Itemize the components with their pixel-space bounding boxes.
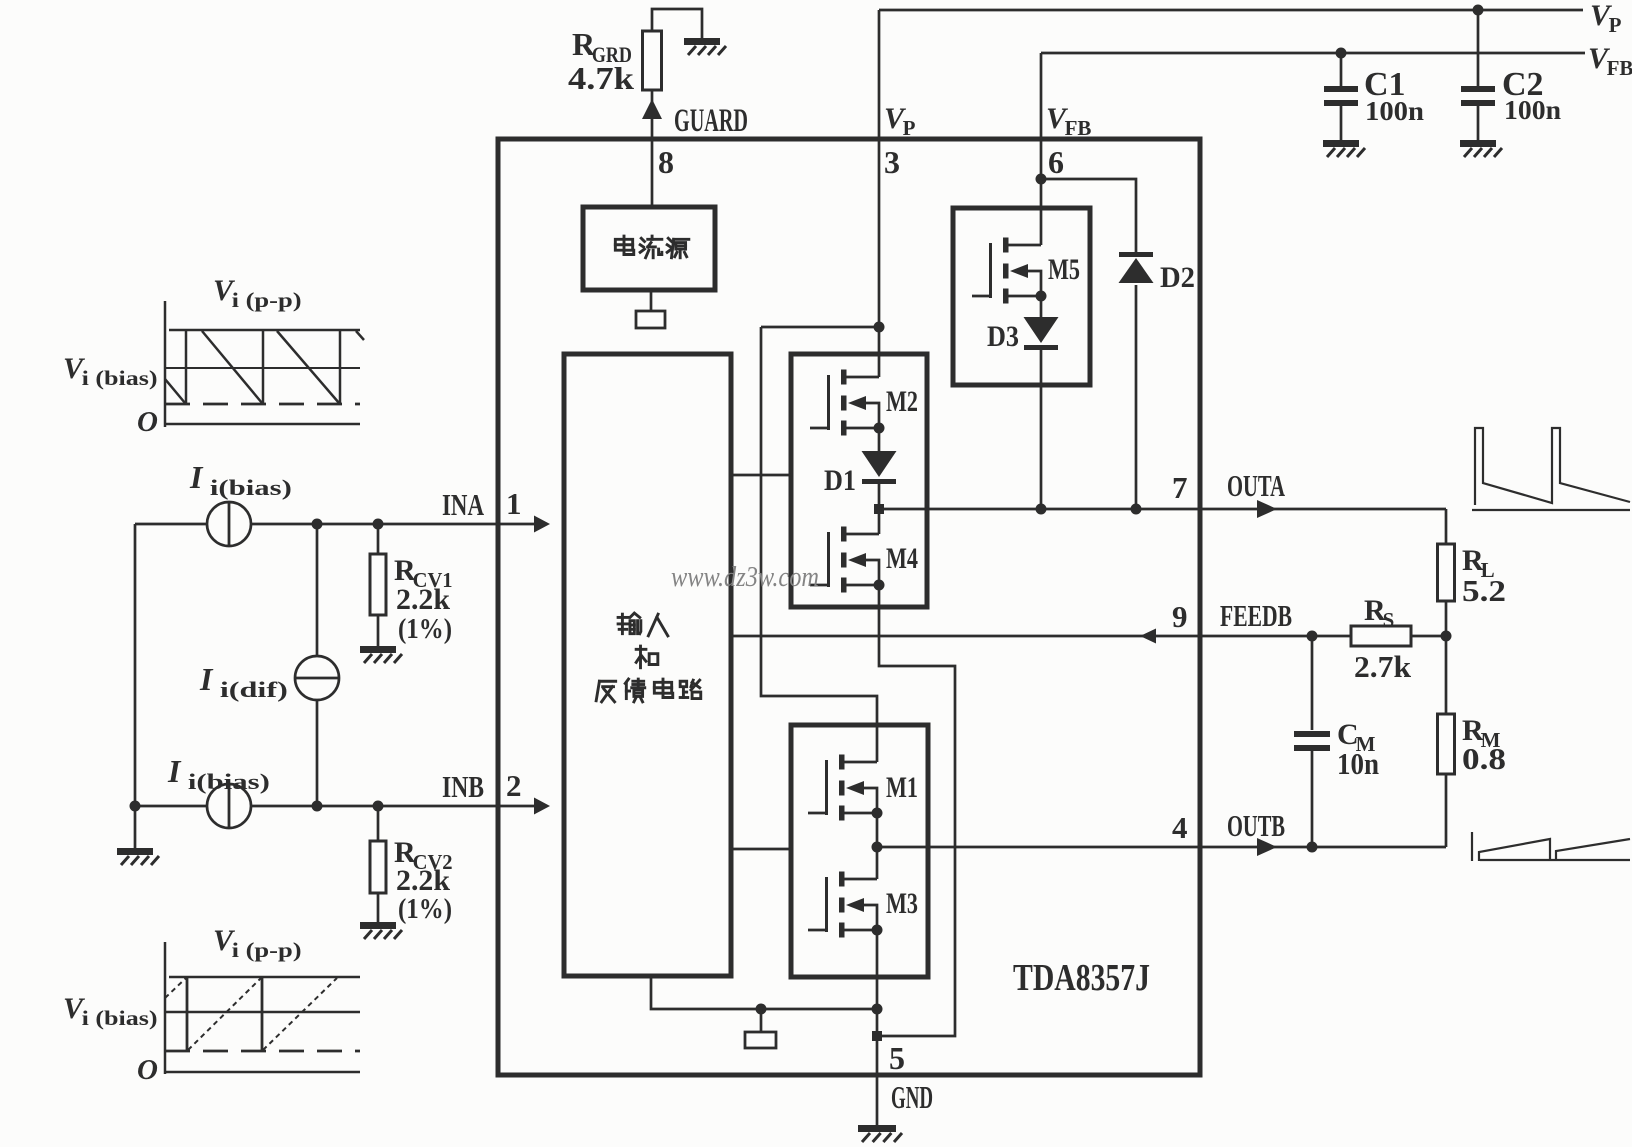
wire substrate stub — [760, 1009, 763, 1032]
wire pin 3 VP vertical to M2 drain — [878, 139, 881, 377]
svg-text:D1: D1 — [824, 464, 856, 497]
wire pin6 to VFB rail — [1040, 53, 1043, 139]
svg-text:(1%): (1%) — [398, 893, 452, 925]
waveform OUTB sawtooth — [1472, 832, 1630, 861]
wire OUTA to R_L — [1445, 509, 1448, 544]
node VFB/C1 junction — [1336, 48, 1347, 59]
ground C1 — [1323, 140, 1365, 157]
wire input block to lower MOS box — [731, 848, 791, 851]
wire INB line — [135, 805, 545, 808]
block: M5/D3 box — [953, 208, 1090, 385]
wire left vertical — [134, 524, 137, 848]
resistor R_M 0.8 — [1438, 714, 1455, 774]
wire branch to D2 — [1041, 179, 1136, 252]
wire M5 source to D3 — [1040, 296, 1043, 317]
current source I_i(dif) — [295, 656, 339, 700]
svg-text:INB: INB — [442, 769, 484, 804]
svg-text:9: 9 — [1172, 599, 1188, 634]
svg-text:OUTA: OUTA — [1227, 468, 1285, 503]
wire VFB rail — [1041, 52, 1585, 55]
resistor R_S 2.7k — [1351, 626, 1411, 646]
node M2 source — [874, 423, 885, 434]
node FEEDB/C_M junction — [1307, 631, 1318, 642]
node M5 source — [1036, 291, 1047, 302]
svg-text:5.2: 5.2 — [1462, 573, 1506, 608]
ground R_GRD — [684, 38, 726, 55]
svg-text:GND: GND — [891, 1079, 933, 1115]
svg-text:O: O — [137, 1054, 158, 1086]
svg-text:D2: D2 — [1160, 261, 1195, 294]
transistor M4 — [810, 527, 879, 593]
resistor R_CV2 2.2k — [370, 841, 386, 893]
node M4 source — [874, 580, 885, 591]
wire VP to C2 — [1477, 10, 1480, 88]
wire C_M to OUTB — [1311, 751, 1314, 847]
capacitor C2 — [1461, 86, 1495, 106]
capacitor C1 — [1324, 86, 1358, 106]
ground R_CV2 — [360, 922, 402, 939]
svg-text:D3: D3 — [987, 320, 1019, 353]
net label V_P right — [1590, 0, 1622, 37]
wire C2 to ground — [1477, 106, 1480, 140]
wire M3 source to GND pin 5 — [876, 930, 879, 1125]
wire R_CV2 to ground — [377, 893, 380, 922]
wire C1 to ground — [1340, 106, 1343, 140]
transistor M3 — [808, 872, 877, 938]
node bottom rail junction at GND line — [872, 1004, 883, 1015]
wire R_CV1 to ground — [377, 615, 380, 646]
substrate plate (current source) — [636, 311, 665, 328]
svg-text:i(dif): i(dif) — [220, 677, 288, 702]
node INB/I_dif junction — [312, 801, 323, 812]
node OUTB junction — [872, 842, 883, 853]
label I_i(dif) — [199, 661, 288, 702]
node INA/I_dif junction — [312, 519, 323, 530]
svg-text:7: 7 — [1172, 470, 1188, 505]
wire VP branch to M1 drain — [761, 327, 877, 762]
wire pin3 to VP rail — [878, 10, 881, 139]
block: M2/D1/M4 box — [791, 354, 927, 607]
svg-text:O: O — [137, 406, 158, 438]
svg-text:i (p-p): i (p-p) — [232, 938, 302, 962]
label R_GRD — [572, 26, 632, 67]
svg-text:FB: FB — [1607, 56, 1632, 80]
wire I_i(dif) to INB — [316, 700, 319, 806]
wire VP rail top — [879, 9, 1583, 12]
svg-text:M1: M1 — [886, 771, 918, 804]
svg-text:P: P — [903, 116, 916, 140]
waveform graph top-left (input A sawtooth) — [165, 301, 364, 427]
wire R_L to node — [1445, 601, 1448, 636]
arrow into pin 2 — [534, 798, 550, 815]
net label V_FB right — [1588, 42, 1632, 80]
label V_i(p-p) top graph — [213, 274, 302, 312]
wire INA line — [135, 523, 545, 526]
wire current source substrate stub — [650, 290, 653, 311]
svg-text:10n: 10n — [1337, 746, 1379, 781]
svg-text:8: 8 — [658, 144, 674, 180]
ground GND pin — [858, 1125, 902, 1142]
substrate plate (bottom) — [745, 1032, 776, 1048]
wire D2 to OUTA line — [1135, 285, 1138, 509]
label C_M — [1337, 718, 1376, 756]
arrow GUARD up — [642, 99, 662, 119]
wire VFB to C1 — [1340, 53, 1343, 88]
svg-text:2.2k: 2.2k — [396, 583, 450, 616]
net label V_P at pin 3 — [884, 102, 916, 140]
svg-text:1: 1 — [506, 486, 522, 521]
wire OUTA line — [879, 508, 1446, 511]
transistor M1 — [808, 755, 877, 821]
arrow into pin 1 — [534, 516, 550, 533]
wire R_GRD top to ground — [652, 9, 702, 38]
node substrate stub junction — [756, 1004, 767, 1015]
svg-text:P: P — [1609, 13, 1622, 37]
wire input block to upper MOS box — [731, 474, 791, 477]
label R_S — [1364, 594, 1394, 632]
transistor M5 — [972, 238, 1041, 304]
arrow OUTB right — [1257, 838, 1277, 856]
svg-text:M2: M2 — [886, 385, 918, 418]
waveform OUTA flyback pulses — [1472, 428, 1630, 510]
wire D3 to OUTA line — [1040, 350, 1043, 509]
diode D1 — [862, 451, 897, 484]
node pin6/D2 branch — [1036, 174, 1047, 185]
svg-text:GUARD: GUARD — [674, 103, 748, 139]
wire INA to I_i(dif) — [316, 524, 319, 656]
svg-text:i (p-p): i (p-p) — [232, 288, 302, 312]
node VP branch junction — [874, 322, 885, 333]
node M3 source — [872, 925, 883, 936]
wire FEEDB line left part — [731, 635, 1351, 638]
wire VP branch horizontal — [761, 326, 879, 329]
label I_i(bias) upper — [189, 459, 292, 500]
wire INA to R_CV1 — [377, 524, 380, 554]
wire INB to R_CV2 — [377, 806, 380, 841]
wire pin 6 to M5 drain — [1040, 139, 1043, 245]
svg-text:M3: M3 — [886, 887, 918, 920]
node INB left junction — [130, 801, 141, 812]
svg-text:(1%): (1%) — [398, 613, 452, 645]
diode D3 — [1024, 317, 1059, 350]
label 输入 — [618, 613, 641, 634]
block: input and feedback circuit (输入和反馈电路) — [564, 354, 731, 976]
svg-text:2.7k: 2.7k — [1354, 649, 1412, 684]
label V_i(bias) top graph — [63, 352, 158, 390]
diode D2 — [1119, 252, 1154, 283]
wire node to R_M — [1445, 636, 1448, 714]
label I_i(bias) lower — [167, 753, 270, 794]
svg-text:FB: FB — [1065, 116, 1092, 140]
label R_M — [1462, 714, 1501, 752]
wire R_GRD to pin 8 — [651, 90, 654, 139]
node D2/OUTA junction — [1131, 504, 1142, 515]
node INB/R_CV2 junction — [373, 801, 384, 812]
node D3/OUTA junction — [1036, 504, 1047, 515]
svg-text:I: I — [167, 753, 182, 789]
ground R_CV1 — [360, 646, 402, 663]
svg-text:i (bias): i (bias) — [82, 1006, 158, 1030]
node INA/R_CV1 junction — [373, 519, 384, 530]
resistor R_L 5.2 — [1438, 544, 1455, 601]
svg-text:M4: M4 — [886, 542, 918, 575]
node M4 return junction (square) — [872, 1031, 882, 1041]
resistor R_GRD 4.7k — [643, 31, 662, 90]
svg-text:I: I — [189, 459, 204, 495]
svg-text:2: 2 — [506, 768, 522, 803]
wire FEEDB node to C_M — [1311, 636, 1314, 730]
wire R_M to OUTB — [1445, 774, 1448, 847]
svg-text:TDA8357J: TDA8357J — [1013, 957, 1150, 999]
svg-text:i(bias): i(bias) — [210, 475, 292, 500]
ground C2 — [1460, 140, 1502, 157]
node OUTA junction (square) — [874, 504, 884, 514]
arrow OUTA right — [1257, 500, 1277, 518]
label R_CV2 — [394, 836, 453, 874]
svg-text:6: 6 — [1048, 144, 1064, 180]
label R_L — [1462, 544, 1495, 582]
svg-text:S: S — [1383, 608, 1395, 632]
current source I_i(bias) upper — [207, 502, 251, 546]
svg-text:www.dz3w.com: www.dz3w.com — [671, 562, 819, 593]
svg-text:OUTB: OUTB — [1227, 808, 1285, 843]
wire D1 to OUTA node and M4 drain — [878, 484, 881, 534]
label 电流源 — [615, 236, 633, 254]
svg-text:i (bias): i (bias) — [82, 366, 158, 390]
svg-text:100n: 100n — [1365, 96, 1424, 126]
wire M1 source to M3 drain (OUTB node) — [876, 813, 879, 879]
block: M1/M3 box — [791, 725, 928, 977]
wire M2 source to D1 — [878, 428, 881, 451]
svg-text:5: 5 — [889, 1040, 905, 1076]
transistor M2 — [810, 370, 879, 436]
arrow FEEDB into pin 9 — [1140, 629, 1156, 644]
net label V_FB at pin 6 — [1046, 102, 1091, 140]
svg-text:3: 3 — [884, 144, 900, 180]
IC TDA8357J outline — [498, 139, 1200, 1075]
node R_L/R_S/R_M junction — [1441, 631, 1452, 642]
svg-text:FEEDB: FEEDB — [1220, 598, 1292, 633]
svg-text:4.7k: 4.7k — [568, 60, 634, 96]
wire R_S to R_L/R_M node — [1411, 635, 1446, 638]
svg-text:0.8: 0.8 — [1462, 741, 1506, 776]
wire M4 source return path — [877, 585, 955, 1036]
node C_M/OUTB junction — [1307, 842, 1318, 853]
svg-text:4: 4 — [1172, 810, 1188, 845]
svg-text:100n: 100n — [1504, 95, 1561, 125]
svg-text:I: I — [199, 661, 214, 697]
current source I_i(bias) lower — [207, 784, 251, 828]
capacitor C_M — [1294, 731, 1330, 751]
block: current source (电流源) — [583, 207, 715, 290]
wire OUTB line — [877, 846, 1446, 849]
label 反馈电路 — [596, 681, 616, 702]
svg-text:i(bias): i(bias) — [188, 769, 270, 794]
svg-text:INA: INA — [442, 487, 484, 522]
ground left input — [117, 848, 159, 865]
waveform graph bottom-left (input B sawtooth) — [165, 942, 360, 1074]
node M1 source — [872, 808, 883, 819]
wire input block bottom to GND node — [651, 976, 877, 1009]
svg-text:M5: M5 — [1048, 253, 1080, 286]
resistor R_CV1 2.2k — [370, 554, 386, 615]
node VP/C2 junction — [1473, 5, 1484, 16]
wire pin 8 to current source block — [651, 139, 654, 207]
label R_CV1 — [394, 554, 453, 592]
label V_i(bias) bottom graph — [63, 992, 158, 1030]
label V_i(p-p) bottom graph — [213, 924, 302, 962]
